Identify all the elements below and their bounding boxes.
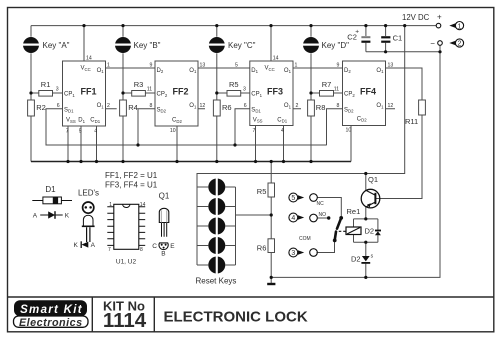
svg-text:FF1: FF1 — [81, 87, 97, 97]
svg-text:Key "A": Key "A" — [43, 41, 70, 50]
svg-text:FF4: FF4 — [360, 87, 376, 97]
svg-text:R8: R8 — [316, 103, 326, 112]
svg-text:O1: O1 — [189, 103, 197, 109]
svg-text:14: 14 — [86, 56, 92, 62]
svg-text:8: 8 — [337, 103, 340, 109]
svg-text:NO: NO — [319, 212, 327, 218]
svg-text:C: C — [152, 243, 157, 250]
svg-text:VSS: VSS — [253, 117, 263, 123]
svg-text:R11: R11 — [405, 117, 418, 126]
svg-text:NC: NC — [317, 201, 325, 207]
svg-text:14: 14 — [140, 202, 146, 208]
svg-text:Key "C": Key "C" — [228, 41, 256, 50]
svg-text:O1: O1 — [284, 103, 292, 109]
svg-text:R5: R5 — [257, 187, 267, 196]
svg-text:A: A — [33, 213, 38, 220]
svg-text:CD2: CD2 — [172, 118, 182, 124]
svg-text:Smart Kit: Smart Kit — [20, 304, 83, 316]
svg-text:10: 10 — [170, 128, 176, 134]
svg-text:3: 3 — [56, 87, 59, 93]
svg-text:1: 1 — [109, 202, 112, 208]
svg-text:FF1, FF2 = U1: FF1, FF2 = U1 — [105, 171, 158, 180]
svg-text:+: + — [437, 12, 442, 21]
svg-text:C1: C1 — [393, 33, 403, 42]
svg-text:A: A — [91, 242, 96, 249]
svg-text:SD2: SD2 — [157, 107, 167, 113]
svg-text:Key "D": Key "D" — [322, 41, 350, 50]
svg-text:4: 4 — [291, 215, 295, 222]
svg-text:CP1: CP1 — [64, 92, 75, 98]
svg-text:Electronics: Electronics — [19, 317, 83, 329]
svg-text:D2: D2 — [157, 68, 164, 74]
svg-text:D1: D1 — [45, 185, 56, 194]
svg-text:SD1: SD1 — [64, 107, 74, 113]
svg-text:4: 4 — [94, 128, 97, 134]
svg-text:VSS: VSS — [66, 118, 76, 124]
svg-text:10: 10 — [346, 128, 352, 134]
svg-text:12: 12 — [200, 103, 206, 109]
svg-text:11: 11 — [147, 87, 152, 93]
svg-text:8: 8 — [140, 247, 143, 253]
svg-text:4: 4 — [281, 128, 284, 134]
svg-text:6: 6 — [244, 103, 247, 109]
svg-text:Q1: Q1 — [368, 175, 378, 184]
svg-text:6: 6 — [57, 103, 60, 109]
svg-text:5: 5 — [79, 128, 82, 134]
svg-text:7: 7 — [66, 128, 69, 134]
svg-text:R7: R7 — [322, 80, 332, 89]
svg-text:K: K — [65, 213, 70, 220]
svg-text:Reset Keys: Reset Keys — [196, 277, 237, 286]
svg-text:D1: D1 — [78, 118, 85, 124]
svg-text:+: + — [355, 29, 359, 36]
svg-text:VCC: VCC — [265, 66, 275, 72]
svg-text:O1: O1 — [97, 103, 105, 109]
svg-text:SD1: SD1 — [251, 107, 261, 113]
svg-text:5: 5 — [291, 195, 295, 202]
svg-text:Re1: Re1 — [347, 207, 361, 216]
svg-text:FF2: FF2 — [173, 87, 189, 97]
svg-text:2: 2 — [458, 41, 462, 48]
svg-text:D1: D1 — [251, 68, 258, 74]
svg-text:R3: R3 — [134, 80, 144, 89]
svg-text:U1, U2: U1, U2 — [116, 259, 137, 266]
svg-text:VCC: VCC — [81, 66, 91, 72]
svg-text:11: 11 — [334, 87, 339, 93]
svg-text:7: 7 — [108, 247, 111, 253]
svg-text:O1: O1 — [376, 68, 384, 74]
svg-text:1114: 1114 — [103, 309, 147, 332]
svg-text:R6: R6 — [257, 244, 267, 253]
svg-text:LED's: LED's — [78, 189, 99, 198]
svg-text:2: 2 — [296, 103, 299, 109]
svg-text:R2: R2 — [36, 103, 46, 112]
svg-text:13: 13 — [200, 63, 206, 69]
svg-text:ELECTRONIC LOCK: ELECTRONIC LOCK — [164, 309, 308, 326]
svg-text:13: 13 — [388, 63, 394, 69]
svg-text:−: − — [430, 39, 435, 48]
svg-text:3: 3 — [243, 87, 246, 93]
svg-text:2: 2 — [107, 103, 110, 109]
svg-text:CP1: CP1 — [251, 92, 262, 98]
svg-text:7: 7 — [253, 128, 256, 134]
svg-text:8: 8 — [150, 103, 153, 109]
svg-text:CP2: CP2 — [344, 92, 355, 98]
svg-text:O1: O1 — [97, 68, 105, 74]
svg-text:R1: R1 — [41, 80, 51, 89]
svg-text:O1: O1 — [376, 103, 384, 109]
svg-text:12V DC: 12V DC — [402, 13, 430, 22]
svg-text:12: 12 — [388, 103, 394, 109]
svg-text:SD2: SD2 — [344, 107, 354, 113]
svg-text:K: K — [74, 242, 79, 249]
svg-text:9: 9 — [337, 63, 340, 69]
svg-text:CD1: CD1 — [90, 118, 100, 124]
svg-text:R5: R5 — [229, 80, 239, 89]
svg-text:14: 14 — [273, 56, 279, 62]
svg-text:CD1: CD1 — [277, 117, 287, 123]
svg-text:E: E — [170, 243, 175, 250]
svg-text:R6: R6 — [222, 103, 232, 112]
svg-text:3: 3 — [291, 250, 295, 257]
svg-text:O1: O1 — [284, 68, 292, 74]
svg-text:D2: D2 — [365, 227, 375, 236]
svg-text:5: 5 — [235, 63, 238, 69]
svg-text:CP2: CP2 — [157, 92, 168, 98]
svg-text:9: 9 — [150, 63, 153, 69]
svg-text:FF3: FF3 — [267, 87, 283, 97]
svg-text:D2: D2 — [351, 255, 361, 264]
svg-text:CD2: CD2 — [357, 116, 367, 122]
svg-text:COM: COM — [299, 236, 311, 242]
svg-text:1: 1 — [295, 63, 298, 69]
svg-text:1: 1 — [458, 23, 462, 30]
svg-text:FF3, FF4 = U1: FF3, FF4 = U1 — [105, 181, 158, 190]
svg-text:Q1: Q1 — [159, 191, 170, 200]
svg-text:B: B — [161, 250, 165, 257]
svg-text:O1: O1 — [189, 68, 197, 74]
svg-text:D2: D2 — [344, 68, 351, 74]
svg-text:1: 1 — [107, 63, 110, 69]
svg-text:R4: R4 — [128, 103, 138, 112]
svg-text:Key "B": Key "B" — [134, 41, 161, 50]
